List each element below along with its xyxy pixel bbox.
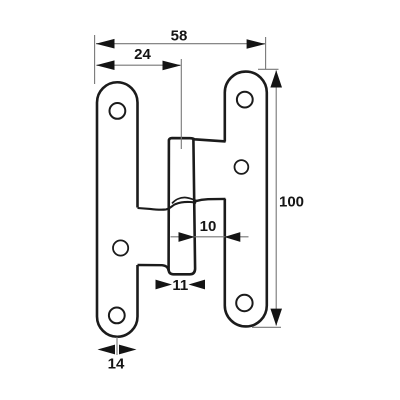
right plate outline (225, 72, 267, 327)
arrow 11 right (189, 280, 206, 290)
left plate middle hole (113, 240, 128, 255)
svg-text:24: 24 (134, 46, 151, 63)
dimension line 58 (96, 43, 265, 45)
svg-text:100: 100 (279, 194, 304, 211)
arrow 58 left (96, 39, 115, 49)
arrow 100 top (270, 70, 282, 87)
svg-text:14: 14 (108, 356, 125, 373)
svg-text:58: 58 (171, 28, 188, 45)
extension line left (94, 35, 96, 84)
svg-text:10: 10 (200, 218, 217, 235)
right plate middle hole (235, 160, 249, 174)
dimension line 24 (97, 64, 181, 66)
barrel left edge, bottom, right edge (169, 140, 196, 275)
right plate bottom hole (236, 295, 252, 311)
dimension line 100 (275, 71, 277, 326)
arrow 100 bottom (270, 309, 282, 326)
extension line top of 100 (258, 68, 279, 70)
left plate top hole (110, 103, 126, 119)
center tick of 14 (116, 337, 118, 355)
arrow 24 right (163, 61, 182, 71)
arrow 10 left (179, 232, 195, 242)
left arm bottom edge (138, 265, 169, 271)
left arm top edge into seam lower curve (138, 202, 197, 210)
seam upper curve (172, 197, 197, 203)
svg-text:11: 11 (172, 277, 188, 294)
extension line bottom of 100 (252, 326, 281, 328)
left plate outline (97, 82, 138, 337)
arrow 14 left (98, 345, 116, 355)
arrow 10 right (224, 232, 240, 242)
barrel top edge and bridge to right plate (169, 138, 226, 141)
arrow 14 right (119, 345, 137, 355)
arrow 11 left (156, 280, 173, 290)
arrow 58 right (247, 39, 266, 49)
right arm bottom edge (195, 199, 225, 201)
arrow 24 left (96, 60, 115, 70)
extension line right of 58 (265, 37, 267, 69)
left plate bottom hole (109, 308, 125, 324)
dimension line 10 (171, 236, 249, 238)
axis extension line of 24 (180, 59, 182, 149)
right plate top hole (237, 92, 253, 108)
